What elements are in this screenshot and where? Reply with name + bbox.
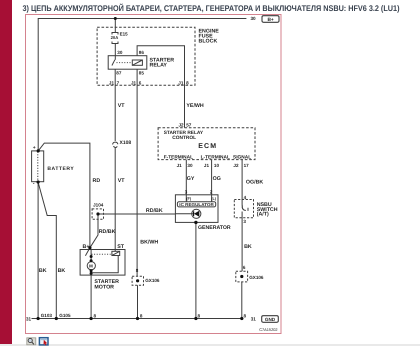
IC regulator box	[177, 202, 215, 207]
wire: ECM signal OG/BK to NSBU pin 4	[241, 160, 243, 205]
svg-text:BK: BK	[39, 268, 47, 274]
wire: relay 86 up and over to J1|8	[137, 46, 184, 128]
starter relay box	[108, 56, 147, 69]
svg-text:GX106: GX106	[145, 278, 160, 283]
svg-text:BK/WH: BK/WH	[140, 240, 158, 246]
svg-text:J1: J1	[178, 80, 184, 85]
wire: starter ground to bus	[90, 275, 92, 318]
svg-text:MOTOR: MOTOR	[94, 284, 114, 290]
svg-text:8: 8	[198, 313, 201, 318]
wire: relay 85 down (BK/WH) to GX106	[136, 69, 138, 276]
GX106 dashed box (starter side)	[132, 276, 143, 285]
svg-text:2: 2	[210, 190, 213, 195]
svg-text:G105: G105	[59, 313, 71, 318]
relay switch blade	[112, 60, 115, 66]
svg-text:8: 8	[186, 80, 189, 85]
svg-text:OG: OG	[213, 176, 221, 182]
svg-text:17: 17	[244, 163, 250, 168]
svg-text:J1: J1	[204, 163, 210, 168]
battery feed diagonal to RD riser	[38, 143, 90, 248]
node: GX106 splice left	[136, 279, 139, 282]
wire: battery negative down to bus	[37, 182, 39, 319]
svg-text:C7A15202: C7A15202	[259, 327, 277, 332]
starter solenoid coil	[112, 251, 120, 255]
svg-text:BK: BK	[58, 268, 66, 274]
svg-text:J1: J1	[109, 80, 115, 85]
wire: relay 87 down (VT) to X108	[114, 69, 116, 141]
svg-text:VT: VT	[118, 178, 126, 184]
wire: GX106 to ground bus	[137, 285, 139, 318]
GX106 dashed box (NSBU side)	[236, 271, 248, 282]
wire: battery negative diagonal to G105 drop	[38, 182, 56, 318]
svg-text:3: 3	[243, 219, 246, 224]
B+ box top right	[262, 16, 279, 23]
starter internal: solenoid return	[91, 256, 118, 273]
svg-text:-: -	[33, 181, 35, 187]
icon window with cursor	[39, 338, 48, 346]
icon magnifier button	[27, 338, 36, 345]
svg-text:30: 30	[187, 163, 193, 168]
starter switch blade	[85, 248, 90, 256]
svg-text:F-TERMINAL: F-TERMINAL	[164, 154, 193, 160]
svg-text:6: 6	[139, 80, 142, 85]
wire: to bus right end	[241, 282, 243, 319]
starter internal: terminal to motor	[90, 249, 92, 262]
svg-text:85: 85	[139, 70, 145, 75]
svg-text:30: 30	[117, 50, 123, 55]
svg-text:GND: GND	[265, 317, 276, 322]
motor circle	[87, 262, 95, 270]
node: GX106 splice right	[240, 275, 243, 278]
svg-text:CONTROL: CONTROL	[172, 135, 196, 141]
svg-text:+: +	[33, 145, 36, 151]
svg-text:RD/BK: RD/BK	[146, 208, 163, 214]
svg-text:L-TERMINAL: L-TERMINAL	[201, 154, 230, 160]
node: bus G105	[55, 317, 58, 320]
svg-text:M: M	[89, 264, 93, 269]
ground bus 31	[32, 318, 244, 320]
relay dotted link	[117, 62, 131, 64]
svg-text:ST: ST	[117, 244, 125, 250]
svg-text:SIGNAL: SIGNAL	[233, 154, 251, 160]
bottom window strip	[0, 344, 420, 346]
schematic pink border frame	[26, 15, 282, 334]
left maroon sidebar	[0, 0, 12, 344]
svg-text:E15: E15	[120, 31, 129, 36]
node: starter ground exit	[90, 272, 93, 275]
svg-text:VT: VT	[118, 103, 126, 109]
wire: fuse drop from bus	[114, 19, 116, 33]
starter internal: motor to bottom	[90, 270, 92, 275]
node: battery positive	[37, 149, 40, 152]
svg-text:(L): (L)	[211, 197, 217, 201]
svg-text:(F): (F)	[186, 197, 192, 201]
svg-text:BK: BK	[244, 244, 252, 250]
svg-text:J104: J104	[93, 203, 104, 208]
svg-text:J1: J1	[177, 163, 183, 168]
svg-text:8: 8	[244, 313, 247, 318]
svg-text:8: 8	[140, 313, 143, 318]
node: generator case ground	[194, 221, 197, 224]
svg-text:(A/T): (A/T)	[257, 212, 269, 218]
node: bus fuse tap	[114, 17, 117, 20]
svg-text:RD: RD	[93, 178, 101, 184]
connector X108 symbol	[113, 142, 118, 144]
svg-text:J2: J2	[233, 163, 239, 168]
ECM dashed box	[158, 128, 255, 160]
svg-text:GY: GY	[187, 176, 195, 182]
svg-text:STARTER RELAY: STARTER RELAY	[164, 130, 204, 136]
wire: J104 splice to generator	[98, 213, 175, 215]
generator circle	[192, 209, 201, 218]
node: bus right end	[240, 317, 243, 320]
node: battery negative	[37, 180, 40, 183]
node: bus relay85	[136, 317, 139, 320]
starter motor box	[80, 250, 125, 276]
wire: generator ground to bus	[195, 222, 197, 318]
NSBU contact dash	[247, 208, 249, 211]
svg-text:YE/WH: YE/WH	[186, 103, 204, 109]
node: starter switch to motor	[90, 255, 93, 258]
svg-text:GX106: GX106	[249, 275, 264, 280]
svg-text:3: 3	[185, 190, 188, 195]
node: starter B+ terminal	[88, 246, 91, 249]
svg-text:57: 57	[186, 122, 192, 127]
node: J104 splice	[96, 212, 99, 215]
wire: top B+ bus	[38, 19, 246, 151]
svg-text:3) ЦЕПЬ АККУМУЛЯТОРНОЙ БАТАРЕИ: 3) ЦЕПЬ АККУМУЛЯТОРНОЙ БАТАРЕИ, СТАРТЕРА…	[23, 3, 400, 13]
svg-text:X108: X108	[120, 140, 132, 146]
engine fuse block dashed box	[97, 27, 195, 85]
wire: ECM F-terminal GY to generator pin 3	[185, 160, 187, 202]
svg-text:B+: B+	[83, 244, 90, 250]
J104 dashed box	[92, 209, 103, 219]
svg-text:G103: G103	[41, 313, 53, 318]
wire: VT continues to starter ST	[114, 148, 116, 251]
svg-text:RELAY: RELAY	[150, 63, 168, 69]
svg-text:B+: B+	[267, 17, 273, 23]
fuse E15 symbol	[112, 33, 118, 35]
svg-text:10: 10	[214, 163, 220, 168]
svg-text:GENERATOR: GENERATOR	[198, 225, 231, 231]
svg-text:6: 6	[243, 265, 246, 270]
svg-text:BATTERY: BATTERY	[47, 166, 74, 172]
svg-text:86: 86	[139, 50, 145, 55]
svg-text:ECM: ECM	[198, 143, 217, 150]
svg-text:IC REGULATOR: IC REGULATOR	[179, 202, 214, 207]
generator diode symbol	[175, 211, 199, 217]
GND box bottom right	[262, 316, 279, 323]
node: motor bottom	[90, 269, 93, 272]
svg-text:87: 87	[116, 70, 122, 75]
NSBU switch dashed box	[234, 200, 253, 218]
svg-text:20A: 20A	[111, 35, 119, 40]
relay coil	[132, 60, 142, 65]
node: bus G103	[37, 317, 40, 320]
svg-text:BLOCK: BLOCK	[199, 38, 218, 44]
wire: NSBU pin3 down BK	[241, 212, 243, 272]
svg-text:OG/BK: OG/BK	[246, 180, 264, 186]
svg-text:30: 30	[251, 16, 257, 21]
battery box	[32, 151, 44, 182]
svg-text:8: 8	[94, 313, 97, 318]
svg-text:J1: J1	[131, 80, 137, 85]
svg-text:7: 7	[117, 80, 120, 85]
node: bus generator	[194, 317, 197, 320]
generator box	[175, 195, 218, 223]
svg-text:31: 31	[26, 317, 32, 322]
svg-text:RD/BK: RD/BK	[99, 229, 116, 235]
NSBU switch blade	[242, 205, 246, 211]
starter dotted link	[92, 253, 112, 255]
wire: ECM L-terminal OG to generator pin 2	[211, 160, 213, 202]
svg-text:J2: J2	[179, 122, 185, 127]
svg-text:31: 31	[251, 317, 257, 322]
battery internal dashed line	[37, 152, 39, 182]
node: bus starter	[90, 317, 93, 320]
node: motor top	[90, 259, 93, 262]
svg-text:4: 4	[244, 195, 247, 200]
svg-text:8: 8	[136, 268, 139, 273]
wire: J104 down RD/BK diagonal to starter B+	[90, 214, 98, 248]
